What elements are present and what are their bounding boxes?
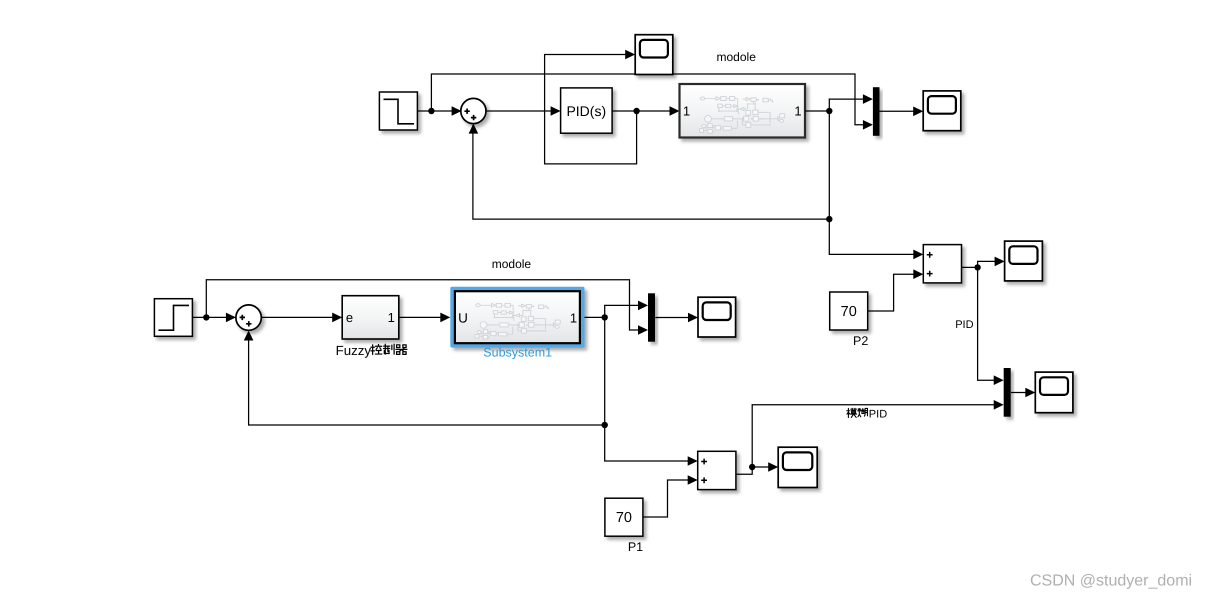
- svg-text:PID: PID: [955, 319, 973, 331]
- svg-text:1: 1: [794, 104, 801, 119]
- svg-text:Subsystem1: Subsystem1: [483, 345, 552, 359]
- svg-text:P2: P2: [853, 334, 868, 348]
- wire mux to scope (top right): [880, 107, 924, 117]
- svg-text:PID(s): PID(s): [566, 103, 606, 119]
- wire fuzzy to Subsystem1: [399, 313, 451, 323]
- svg-text:U: U: [458, 310, 468, 325]
- sum circle (bottom): [236, 305, 261, 330]
- svg-text:1: 1: [388, 310, 395, 325]
- mux (top): [873, 87, 880, 136]
- Subsystem1 selection frame (blue): [450, 287, 584, 348]
- fuzzy controller block: [342, 296, 399, 339]
- constant 70 block P1: [605, 498, 643, 536]
- step source block (bottom): [154, 299, 192, 337]
- step source block (top): [379, 92, 417, 130]
- wire mux2 to scope5: [1011, 388, 1035, 398]
- scope (top small): [635, 35, 673, 75]
- scope (fuzzy output): [778, 447, 817, 487]
- scope (comparison): [1035, 372, 1073, 413]
- wire PID signal to mux2: [978, 267, 1004, 385]
- wire Subsystem1 output to mux (bottom): [585, 301, 649, 321]
- wire mux to scope (bottom): [655, 313, 698, 323]
- wire plant output to mux (top): [805, 94, 873, 114]
- scope (top right): [923, 91, 961, 131]
- wire P1 to sum4: [643, 475, 698, 517]
- wire Subsystem1 output down to sum4: [602, 317, 698, 465]
- svg-text:70: 70: [616, 510, 632, 526]
- wire sum(bottom) to fuzzy controller: [261, 313, 342, 323]
- svg-text:e: e: [346, 310, 353, 325]
- mux2 (comparison): [1004, 368, 1011, 417]
- wire PID output to plant subsystem: [612, 106, 679, 116]
- wire PID output loop to scope (top): [545, 50, 637, 164]
- wire sum3 to scope3: [961, 257, 1004, 271]
- mux (bottom left): [648, 293, 655, 341]
- scope (bottom loop): [698, 297, 736, 337]
- svg-text:1: 1: [570, 310, 577, 325]
- wire reference branch to mux (top): [431, 74, 873, 130]
- svg-text:Fuzzy: Fuzzy: [336, 343, 372, 358]
- svg-text:CSDN @studyer_domi: CSDN @studyer_domi: [1030, 573, 1192, 590]
- wire plant output down to feedback junction: [826, 111, 923, 259]
- plant subsystem block modole (top): [680, 84, 806, 138]
- constant 70 block P2: [830, 292, 868, 330]
- wire P2 to sum3: [868, 269, 924, 311]
- svg-text:70: 70: [841, 304, 857, 320]
- label fuzzy PID (CJK): [847, 408, 887, 420]
- wire sum4 to scope4: [736, 462, 778, 474]
- svg-text:PID: PID: [869, 409, 887, 421]
- wire feedback to sum (top): [469, 124, 830, 220]
- label Fuzzy controller (CJK): [336, 343, 407, 358]
- sum3 square (pid + 70): [923, 245, 961, 283]
- wire sum(top) to PID: [486, 106, 561, 116]
- sum4 square (fuzzy + 70): [698, 451, 736, 489]
- wire step(top) to sum junction: [417, 106, 461, 116]
- wire reference branch to mux (bottom): [206, 280, 648, 335]
- sum circle (top): [461, 98, 486, 123]
- scope (PID output): [1005, 241, 1043, 281]
- svg-text:modole: modole: [717, 50, 757, 64]
- wire feedback to sum (bottom): [244, 331, 605, 426]
- Subsystem1 block: [455, 291, 580, 343]
- wire fuzzy-PID signal to mux2: [752, 400, 1004, 467]
- svg-text:modole: modole: [492, 257, 532, 271]
- wire step(bottom) to sum: [192, 313, 236, 323]
- svg-text:1: 1: [683, 104, 690, 119]
- PID controller block: [561, 88, 613, 133]
- svg-text:P1: P1: [628, 540, 643, 554]
